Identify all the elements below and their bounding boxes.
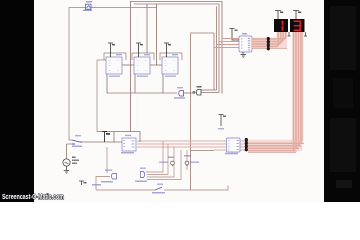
clock input component at top-left: [86, 4, 92, 9]
wire: rectangle y=33 x=190..214 and long drop to bottom row: [191, 33, 215, 190]
tick label right of display2: [304, 32, 307, 36]
left black sidebar: [0, 0, 34, 202]
7-seg display 2: [290, 11, 307, 37]
wire: vertical x=156.5 from rail y=4 to FF clock chain: [156, 4, 158, 65]
switch S1: [67, 135, 83, 147]
wire: rail y=4 from x=134 to x=219 down to gate row: [134, 4, 219, 93]
wire: vertical x=216.5 from inner corner down to gate row: [216, 6, 218, 90]
flip-flop U1B: [132, 43, 162, 93]
VCC for U2A: [164, 43, 169, 57]
wire: rail y=1.5 from x=130.5 to x=222 down to gate row: [131, 2, 223, 132]
svg-text:Screencast-O-Matic.com: Screencast-O-Matic.com: [2, 192, 64, 201]
tick label right of display1: [288, 32, 291, 36]
gate U4A (dark): [193, 86, 219, 95]
VCC for U1A: [108, 43, 113, 57]
VCC near U2: [102, 132, 107, 143]
bus connector block (bottom): [240, 138, 248, 151]
wire: top rail y=7.5 from left vertical to x=156: [69, 8, 157, 141]
VCC for display1: [275, 11, 281, 20]
lower bus from connector to vertical bus: [248, 140, 298, 152]
VCC for display2: [293, 11, 299, 20]
IC U2 middle with feedback loop: [82, 132, 140, 154]
bus connector block (top): [267, 37, 270, 50]
flip-flop U2A: [160, 43, 182, 93]
gate U5A (blue): [174, 87, 195, 99]
vertical bus from display2 down to lower bus: [292, 32, 302, 151]
bus wires into U3 from verticals: [214, 39, 239, 48]
probe X1: [159, 150, 187, 170]
bus from U3 to display1: [252, 32, 287, 40]
wire: vertical x=147 from rail to FF2 top: [146, 4, 148, 53]
7447 decoder U3: [230, 29, 253, 58]
bottom wire with switch S2: [96, 184, 228, 194]
wire: FF outputs collector to gate row: [107, 92, 177, 94]
probe X2: [184, 155, 199, 167]
7-seg display 1: [274, 11, 291, 37]
VCC for U1B: [136, 43, 141, 57]
ground under U3: [241, 52, 247, 57]
pink wires from U2 to U4: [137, 141, 226, 150]
IC U4 lower right: [218, 115, 240, 155]
gate U6 bottom: [135, 168, 147, 183]
flip-flop U1A: [97, 43, 134, 132]
ground under V1: [64, 166, 69, 173]
VCC near bottom gates: [79, 181, 101, 186]
right black sidebar: [324, 0, 360, 202]
gate U5B bottom: [96, 147, 117, 190]
clock source V1: [63, 144, 79, 173]
riser wires from gate U6 up into lower bus: [146, 141, 181, 180]
VCC for U3: [230, 29, 240, 41]
